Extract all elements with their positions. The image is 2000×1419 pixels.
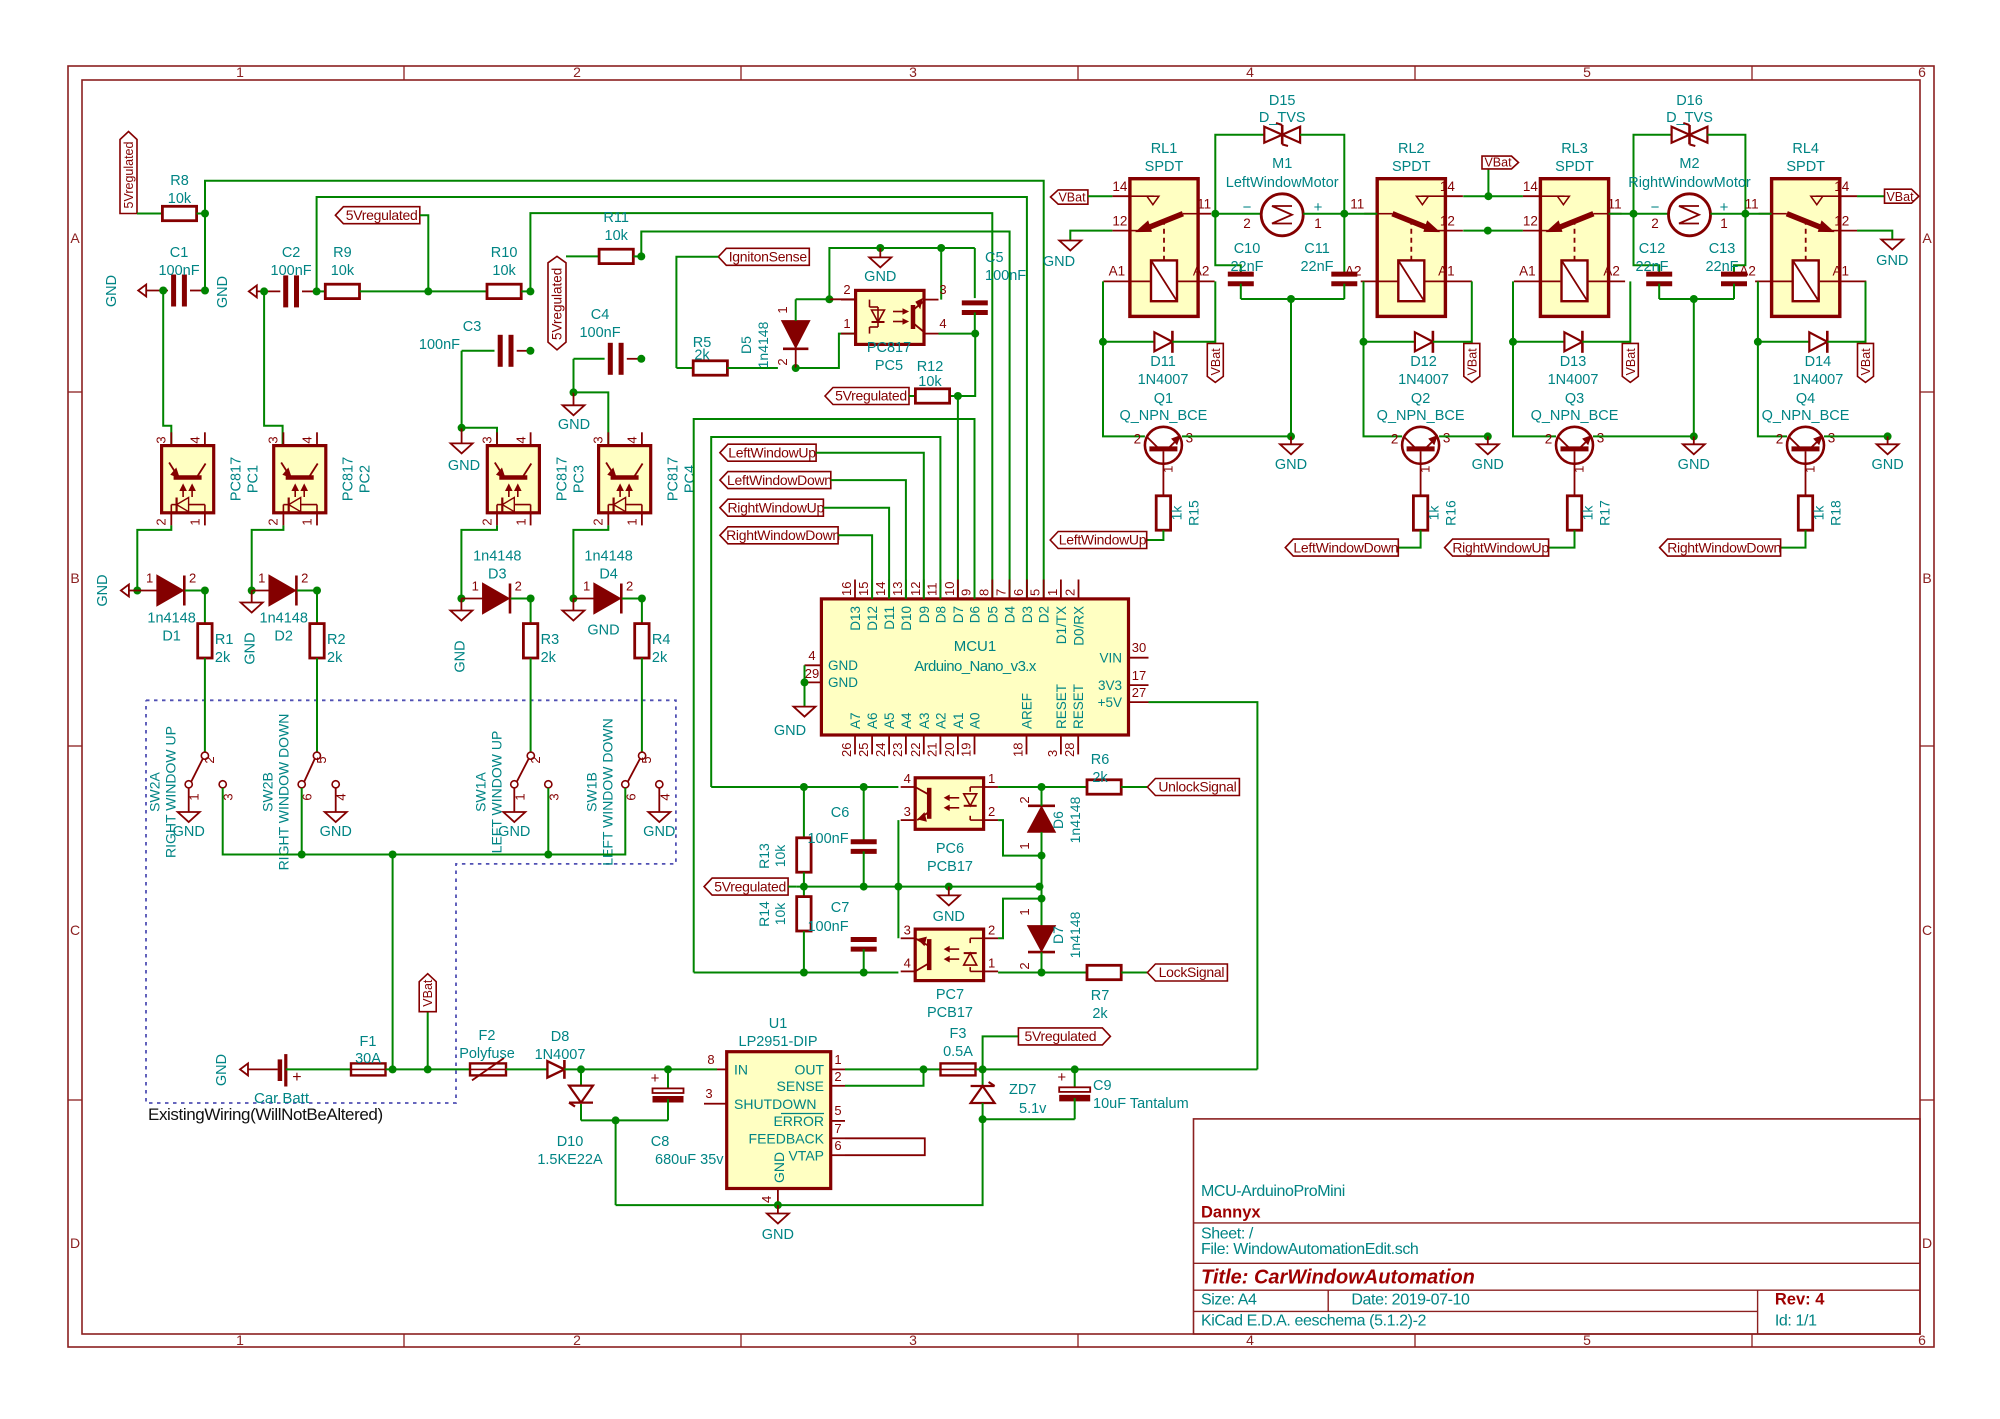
svg-text:R8: R8 xyxy=(170,173,189,189)
svg-text:GND: GND xyxy=(214,1054,230,1086)
svg-text:D11: D11 xyxy=(1150,354,1176,370)
diode D11 1N4007 xyxy=(1103,331,1215,388)
svg-text:3: 3 xyxy=(1186,430,1194,445)
global label RightWindowDown (MCU) xyxy=(720,527,872,599)
resistor R8 xyxy=(137,173,205,221)
svg-text:PC3: PC3 xyxy=(571,465,587,493)
diode D4 1n4148 xyxy=(573,549,646,614)
svg-text:D2: D2 xyxy=(1037,606,1052,623)
svg-text:Title: CarWindowAutomation: Title: CarWindowAutomation xyxy=(1201,1267,1475,1289)
svg-text:8: 8 xyxy=(707,1052,714,1067)
capacitor C10 22nF xyxy=(1215,214,1263,299)
power flag 5Vregulated (top left) xyxy=(120,132,137,214)
svg-text:Dannyx: Dannyx xyxy=(1201,1204,1261,1222)
svg-text:GND: GND xyxy=(864,269,896,285)
svg-text:R6: R6 xyxy=(1091,752,1110,768)
svg-text:D5: D5 xyxy=(985,606,1000,623)
svg-text:UnlockSignal: UnlockSignal xyxy=(1158,779,1236,795)
svg-text:C7: C7 xyxy=(831,900,850,916)
svg-text:4: 4 xyxy=(904,955,911,970)
power flag VBat (RL4 pin14) xyxy=(1857,189,1919,204)
svg-text:10k: 10k xyxy=(605,228,629,244)
svg-text:1N4007: 1N4007 xyxy=(535,1047,586,1063)
svg-text:GND: GND xyxy=(643,824,675,840)
motor M2 RightWindowMotor xyxy=(1628,156,1751,236)
wire Q4 emitter to GND xyxy=(1824,432,1892,440)
optocoupler PC1 xyxy=(154,432,262,525)
svg-text:16: 16 xyxy=(839,582,854,596)
svg-text:LEFT WINDOW DOWN: LEFT WINDOW DOWN xyxy=(599,718,615,866)
svg-text:VBat: VBat xyxy=(1886,190,1914,204)
svg-text:1: 1 xyxy=(236,1332,244,1348)
svg-text:PC817: PC817 xyxy=(341,457,357,501)
svg-text:R4: R4 xyxy=(652,632,671,648)
svg-text:PC817: PC817 xyxy=(554,457,570,501)
svg-text:1: 1 xyxy=(472,579,479,594)
svg-text:GND: GND xyxy=(774,723,806,739)
svg-text:A6: A6 xyxy=(865,712,880,729)
diode D3 1n4148 xyxy=(461,549,534,614)
svg-text:GND: GND xyxy=(95,574,111,606)
svg-text:R1: R1 xyxy=(215,632,234,648)
wire PC7 net to MCU pin9 (D6) xyxy=(694,419,975,973)
power GND (Q3) xyxy=(1678,436,1710,473)
resistor R1 2k xyxy=(198,591,234,753)
svg-text:5Vregulated: 5Vregulated xyxy=(835,388,907,404)
global label RightWindowUp xyxy=(1445,539,1550,556)
svg-text:GND: GND xyxy=(243,632,259,664)
svg-text:4: 4 xyxy=(904,771,911,786)
svg-text:VBat: VBat xyxy=(1058,191,1086,205)
svg-text:2: 2 xyxy=(1651,216,1659,231)
svg-text:6: 6 xyxy=(1918,64,1926,80)
power GND (Q1) xyxy=(1275,436,1307,473)
svg-text:1.5KE22A: 1.5KE22A xyxy=(537,1152,603,1168)
capacitor C9 10uF Tantalum xyxy=(1057,1069,1188,1119)
svg-text:2: 2 xyxy=(775,358,790,365)
svg-text:3: 3 xyxy=(909,1332,917,1348)
svg-text:1N4007: 1N4007 xyxy=(1793,372,1844,388)
svg-text:LeftWindowUp: LeftWindowUp xyxy=(1059,532,1147,548)
svg-text:3: 3 xyxy=(1443,430,1451,445)
svg-text:2k: 2k xyxy=(694,348,710,364)
wire D4 anode / PC pin2 jog xyxy=(569,525,608,602)
svg-text:1: 1 xyxy=(1017,908,1032,915)
svg-text:D14: D14 xyxy=(1805,354,1832,370)
svg-text:IgnitonSense: IgnitonSense xyxy=(729,249,808,265)
svg-text:R10: R10 xyxy=(491,245,518,261)
svg-text:Id: 1/1: Id: 1/1 xyxy=(1775,1313,1817,1330)
svg-text:A2: A2 xyxy=(1739,263,1756,278)
svg-text:C12: C12 xyxy=(1639,241,1666,257)
global label RightWindowUp (MCU) xyxy=(720,499,889,599)
svg-text:2k: 2k xyxy=(327,650,343,666)
svg-text:3: 3 xyxy=(909,64,917,80)
svg-text:5Vregulated: 5Vregulated xyxy=(550,268,565,340)
svg-text:GND: GND xyxy=(828,675,858,690)
svg-text:15: 15 xyxy=(856,582,871,596)
power GND (PC5) xyxy=(864,248,896,285)
svg-text:RightWindowUp: RightWindowUp xyxy=(727,499,824,515)
svg-text:Q_NPN_BCE: Q_NPN_BCE xyxy=(1762,408,1850,424)
capacitor C5 100nF xyxy=(962,248,1026,334)
svg-text:RL3: RL3 xyxy=(1561,141,1588,157)
svg-text:2k: 2k xyxy=(1092,1006,1108,1022)
svg-text:2: 2 xyxy=(988,804,995,819)
svg-text:3: 3 xyxy=(904,804,911,819)
svg-text:1k: 1k xyxy=(1811,505,1827,521)
svg-text:SPDT: SPDT xyxy=(1392,159,1431,175)
svg-text:2: 2 xyxy=(1776,431,1784,446)
capacitor C13 22nF xyxy=(1705,214,1747,299)
svg-text:LeftWindowDown: LeftWindowDown xyxy=(727,472,832,488)
svg-text:D11: D11 xyxy=(882,606,897,630)
svg-text:1n4148: 1n4148 xyxy=(260,611,308,627)
svg-text:Sheet: /: Sheet: / xyxy=(1201,1226,1254,1243)
svg-text:Date: 2019-07-10: Date: 2019-07-10 xyxy=(1351,1292,1470,1309)
svg-text:D10: D10 xyxy=(557,1134,584,1150)
global label UnlockSignal xyxy=(1147,779,1239,796)
svg-text:R16: R16 xyxy=(1443,500,1459,526)
svg-text:4: 4 xyxy=(939,316,946,331)
wire battery bus with VBat tap xyxy=(386,1012,471,1074)
diode D2 1n4148 xyxy=(252,571,321,645)
svg-text:1: 1 xyxy=(583,579,590,594)
wire RL2/RL3 pin14 VBat xyxy=(1463,169,1523,200)
svg-text:D0/RX: D0/RX xyxy=(1072,606,1087,646)
svg-text:4: 4 xyxy=(625,436,640,443)
svg-text:GND: GND xyxy=(1275,457,1307,473)
svg-text:1: 1 xyxy=(1045,589,1060,596)
svg-text:4: 4 xyxy=(188,436,203,443)
svg-text:R18: R18 xyxy=(1828,500,1844,526)
resistor R3 2k xyxy=(523,599,559,753)
svg-text:Q_NPN_BCE: Q_NPN_BCE xyxy=(1531,408,1619,424)
svg-text:VBat: VBat xyxy=(1209,348,1223,376)
svg-text:+: + xyxy=(292,1069,301,1086)
svg-text:Rev: 4: Rev: 4 xyxy=(1775,1291,1825,1309)
svg-text:22nF: 22nF xyxy=(1230,259,1263,275)
svg-text:D6: D6 xyxy=(1050,811,1066,829)
svg-text:Q3: Q3 xyxy=(1565,391,1584,407)
wire C2 to PC2 pin3 xyxy=(260,287,283,445)
svg-text:2: 2 xyxy=(528,756,543,763)
svg-text:GND: GND xyxy=(1876,253,1908,269)
svg-text:GND: GND xyxy=(320,824,352,840)
svg-text:2: 2 xyxy=(479,518,494,525)
svg-text:2: 2 xyxy=(988,922,995,937)
resistor R14 10k xyxy=(756,887,811,973)
capacitor C8 680uF 35v xyxy=(651,1069,725,1168)
svg-text:D: D xyxy=(70,1235,80,1251)
svg-text:C4: C4 xyxy=(591,307,610,323)
svg-text:2: 2 xyxy=(266,518,281,525)
svg-text:KiCad E.D.A. eeschema (5.1.2): KiCad E.D.A. eeschema (5.1.2)-2 xyxy=(1201,1313,1427,1330)
svg-text:6: 6 xyxy=(834,1138,841,1153)
svg-text:2k: 2k xyxy=(652,650,668,666)
global label 5Vregulated (R12) xyxy=(825,388,915,405)
svg-text:M1: M1 xyxy=(1272,156,1292,172)
svg-text:R12: R12 xyxy=(917,359,944,375)
svg-text:GND: GND xyxy=(587,623,619,639)
capacitor C12 22nF xyxy=(1634,214,1673,299)
svg-text:2: 2 xyxy=(573,1332,581,1348)
power GND (D1) xyxy=(95,574,137,606)
svg-text:1: 1 xyxy=(834,1052,841,1067)
svg-text:VBat: VBat xyxy=(1624,348,1638,376)
svg-text:VBat: VBat xyxy=(1859,348,1873,376)
svg-text:PC1: PC1 xyxy=(246,465,262,493)
svg-text:1n4148: 1n4148 xyxy=(584,549,632,565)
transistor Q3 Q_NPN_BCE xyxy=(1531,391,1619,473)
svg-text:24: 24 xyxy=(873,743,888,757)
svg-text:C6: C6 xyxy=(831,805,850,821)
svg-text:A1: A1 xyxy=(1109,263,1126,278)
wire LockSignal row (PC7) xyxy=(694,969,899,977)
svg-text:GND: GND xyxy=(452,640,468,672)
power GND (RL1 pin12) xyxy=(1043,241,1081,271)
svg-text:R15: R15 xyxy=(1185,500,1201,526)
power GND (battery) xyxy=(214,1054,278,1086)
svg-text:4: 4 xyxy=(1246,64,1254,80)
global label IgnitonSense xyxy=(676,248,809,368)
capacitor C7 100nF xyxy=(807,900,876,973)
wire C4/GND to PC4 pin3 xyxy=(574,392,609,445)
switch SW1A LEFT WINDOW UP xyxy=(472,731,561,854)
svg-text:12: 12 xyxy=(908,582,923,596)
svg-text:D10: D10 xyxy=(899,606,914,631)
svg-text:100nF: 100nF xyxy=(579,325,620,341)
svg-text:10k: 10k xyxy=(918,374,942,390)
svg-text:Car Batt: Car Batt xyxy=(254,1090,310,1107)
optocoupler PC6 xyxy=(901,771,998,875)
svg-text:SPDT: SPDT xyxy=(1145,159,1184,175)
svg-text:8: 8 xyxy=(976,589,991,596)
svg-text:D8: D8 xyxy=(551,1029,570,1045)
wire RL1 pin12 to GND xyxy=(1070,231,1112,241)
svg-text:21: 21 xyxy=(924,743,939,757)
svg-text:2: 2 xyxy=(1134,431,1142,446)
svg-text:1: 1 xyxy=(1314,216,1322,231)
svg-text:MCU-ArduinoProMini: MCU-ArduinoProMini xyxy=(1201,1183,1345,1200)
svg-text:A2: A2 xyxy=(1603,263,1620,278)
svg-text:1n4148: 1n4148 xyxy=(473,549,521,565)
capacitor C2 xyxy=(257,245,317,307)
svg-text:1k: 1k xyxy=(1580,505,1596,521)
svg-text:ZD7: ZD7 xyxy=(1009,1082,1036,1098)
svg-text:A: A xyxy=(70,230,80,246)
svg-text:+5V: +5V xyxy=(1098,695,1122,710)
svg-text:12: 12 xyxy=(1834,214,1849,229)
svg-text:U1: U1 xyxy=(769,1016,788,1032)
svg-text:B: B xyxy=(1922,570,1931,586)
svg-text:SW2A: SW2A xyxy=(147,772,163,812)
svg-text:SPDT: SPDT xyxy=(1555,159,1594,175)
svg-text:1: 1 xyxy=(258,571,265,586)
optocoupler PC4 xyxy=(591,432,699,525)
diode D12 1N4007 xyxy=(1364,331,1472,388)
wire U1 OUT to F3 xyxy=(845,1068,941,1070)
optocoupler PC7 xyxy=(901,922,998,1021)
svg-text:2: 2 xyxy=(1391,431,1399,446)
svg-text:C9: C9 xyxy=(1093,1078,1112,1094)
svg-text:D12: D12 xyxy=(865,606,880,631)
svg-text:LP2951-DIP: LP2951-DIP xyxy=(739,1034,818,1050)
svg-text:4: 4 xyxy=(759,1196,774,1203)
svg-text:10uF Tantalum: 10uF Tantalum xyxy=(1093,1096,1189,1112)
svg-text:3: 3 xyxy=(1597,430,1605,445)
svg-text:27: 27 xyxy=(1132,685,1146,700)
svg-text:5: 5 xyxy=(1583,64,1591,80)
svg-text:22nF: 22nF xyxy=(1635,259,1668,275)
svg-text:5: 5 xyxy=(834,1103,841,1118)
svg-text:2: 2 xyxy=(1243,216,1251,231)
transistor Q2 Q_NPN_BCE xyxy=(1377,391,1465,473)
svg-text:18: 18 xyxy=(1011,743,1026,757)
resistor R13 10k xyxy=(756,787,811,887)
svg-text:C3: C3 xyxy=(463,319,482,335)
svg-text:GND: GND xyxy=(215,276,231,308)
svg-text:3: 3 xyxy=(1045,750,1060,757)
svg-text:1N4007: 1N4007 xyxy=(1138,372,1189,388)
wire D3 anode / PC pin2 jog xyxy=(457,525,497,602)
svg-text:5Vregulated: 5Vregulated xyxy=(714,878,786,894)
svg-text:PC7: PC7 xyxy=(936,987,964,1003)
MCU1 Arduino_Nano_v3.x xyxy=(805,580,1149,758)
resistor R2 2k xyxy=(310,591,346,753)
svg-text:RightWindowMotor: RightWindowMotor xyxy=(1628,175,1751,191)
svg-text:A: A xyxy=(1922,230,1932,246)
diode D15 D_TVS xyxy=(1215,93,1344,214)
svg-text:SPDT: SPDT xyxy=(1786,159,1825,175)
svg-text:7: 7 xyxy=(834,1121,841,1136)
svg-text:22nF: 22nF xyxy=(1300,259,1333,275)
svg-text:C: C xyxy=(1922,922,1932,938)
svg-text:LeftWindowMotor: LeftWindowMotor xyxy=(1226,175,1339,191)
global label LeftWindowUp xyxy=(1050,532,1147,549)
wire D5/R5 to PC5 pin1 xyxy=(796,334,856,368)
svg-text:D4: D4 xyxy=(599,567,618,583)
transistor Q4 Q_NPN_BCE xyxy=(1762,391,1850,473)
wire C3/GND to PC3 pin3 xyxy=(462,428,497,446)
power GND (D2) xyxy=(241,591,263,665)
battery Car Batt xyxy=(254,1054,310,1107)
svg-text:LeftWindowUp: LeftWindowUp xyxy=(728,444,816,460)
svg-text:A0: A0 xyxy=(968,712,983,729)
wire RL4 coil drops xyxy=(1754,281,1866,436)
wire net PC2 collector to MCU pin6 (D3) xyxy=(313,197,1027,599)
svg-text:5Vregulated: 5Vregulated xyxy=(346,207,418,223)
svg-text:1: 1 xyxy=(625,518,640,525)
wire RL3 coil drops xyxy=(1509,281,1630,436)
global label 5Vregulated (R11 node, vertical) xyxy=(548,256,599,349)
diode D6 1n4148 xyxy=(1017,787,1083,860)
power GND (C2) xyxy=(215,276,257,308)
svg-text:2: 2 xyxy=(515,579,522,594)
wire U1 FEEDBACK-VTAP loop xyxy=(845,1138,925,1155)
power GND (PC6/PC7) xyxy=(933,887,965,925)
svg-text:RESET: RESET xyxy=(1071,684,1086,729)
svg-text:VBat: VBat xyxy=(1484,156,1512,170)
svg-text:680uF 35v: 680uF 35v xyxy=(655,1152,724,1168)
svg-text:5: 5 xyxy=(1028,589,1043,596)
global label 5Vregulated (F3 output) xyxy=(1018,1028,1110,1045)
svg-text:R7: R7 xyxy=(1091,988,1110,1004)
svg-text:D3: D3 xyxy=(488,567,507,583)
svg-text:2: 2 xyxy=(202,756,217,763)
svg-text:C11: C11 xyxy=(1304,241,1330,257)
svg-text:2: 2 xyxy=(626,579,633,594)
svg-text:2: 2 xyxy=(1545,431,1553,446)
svg-text:D_TVS: D_TVS xyxy=(1666,110,1713,126)
svg-text:2: 2 xyxy=(1017,796,1032,803)
power GND (RL4 pin12) xyxy=(1876,240,1908,270)
svg-text:2: 2 xyxy=(154,518,169,525)
svg-text:PCB17: PCB17 xyxy=(927,859,973,875)
power GND (D4) xyxy=(562,599,619,639)
power GND (C3) xyxy=(448,351,480,474)
svg-text:9: 9 xyxy=(959,589,974,596)
svg-text:C5: C5 xyxy=(985,250,1004,266)
svg-text:D_TVS: D_TVS xyxy=(1259,110,1306,126)
svg-text:D8: D8 xyxy=(933,606,948,623)
wire RL4 pin11 xyxy=(1745,213,1771,215)
power GND (MCU) xyxy=(774,665,816,739)
svg-text:11: 11 xyxy=(924,583,939,597)
svg-text:25: 25 xyxy=(856,743,871,757)
global label LockSignal xyxy=(1147,964,1227,981)
svg-text:RL2: RL2 xyxy=(1398,141,1425,157)
svg-text:GND: GND xyxy=(762,1227,794,1243)
svg-text:+: + xyxy=(1720,199,1729,216)
svg-text:PC817: PC817 xyxy=(867,340,911,356)
global label 5Vregulated (R13/R14) xyxy=(704,878,797,895)
svg-text:RESET: RESET xyxy=(1054,684,1069,729)
svg-text:1n4148: 1n4148 xyxy=(755,321,771,368)
svg-text:D1/TX: D1/TX xyxy=(1054,606,1069,644)
svg-text:Q_NPN_BCE: Q_NPN_BCE xyxy=(1377,408,1465,424)
resistor R7 2k xyxy=(1087,965,1147,1022)
svg-text:GND: GND xyxy=(104,275,120,307)
svg-text:C8: C8 xyxy=(651,1134,670,1150)
wire RL2 pin11 xyxy=(1344,213,1377,215)
wire D1 anode / PC pin2 jog xyxy=(133,525,171,594)
svg-text:3: 3 xyxy=(479,436,494,443)
diode D16 D_TVS xyxy=(1634,93,1746,214)
diode D8 1N4007 xyxy=(506,1029,585,1079)
svg-text:2: 2 xyxy=(834,1069,841,1084)
svg-text:PC817: PC817 xyxy=(666,457,682,501)
fuse F3 0.5A xyxy=(941,1026,976,1075)
svg-text:3: 3 xyxy=(904,922,911,937)
power flag VBat (D13) xyxy=(1622,343,1638,382)
svg-text:14: 14 xyxy=(1834,179,1850,194)
svg-text:GND: GND xyxy=(771,1152,787,1183)
svg-text:A1: A1 xyxy=(1519,263,1536,278)
relay RL1 xyxy=(1103,141,1214,316)
wire PC7 pin1 row to R7 xyxy=(998,972,1087,974)
switch SW1B LEFT WINDOW DOWN xyxy=(583,718,675,866)
global label LeftWindowDown xyxy=(1285,539,1398,556)
wire RL1 coil drops xyxy=(1099,281,1215,436)
resistor R11 xyxy=(599,210,641,264)
svg-text:RightWindowDown: RightWindowDown xyxy=(1667,539,1781,555)
svg-text:GND: GND xyxy=(933,909,965,925)
svg-text:File: WindowAutomationEdit.sch: File: WindowAutomationEdit.sch xyxy=(1201,1241,1418,1258)
resistor R12 10k xyxy=(915,359,949,403)
global label RightWindowDown xyxy=(1660,539,1781,556)
resistor R17 1k xyxy=(1549,464,1613,548)
